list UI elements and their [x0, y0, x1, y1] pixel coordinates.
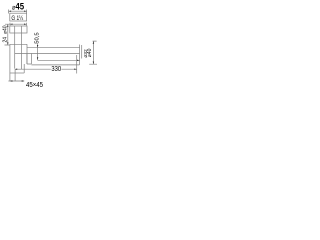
- svg-text:50,5: 50,5: [35, 32, 41, 43]
- svg-text:45×45: 45×45: [26, 81, 43, 89]
- svg-text:24: 24: [3, 37, 9, 43]
- svg-text:G 1¼: G 1¼: [11, 16, 23, 23]
- svg-text:45: 45: [15, 1, 24, 12]
- svg-text:⌀40: ⌀40: [87, 48, 93, 57]
- svg-text:330: 330: [51, 66, 61, 74]
- svg-text:⌀40: ⌀40: [3, 25, 9, 34]
